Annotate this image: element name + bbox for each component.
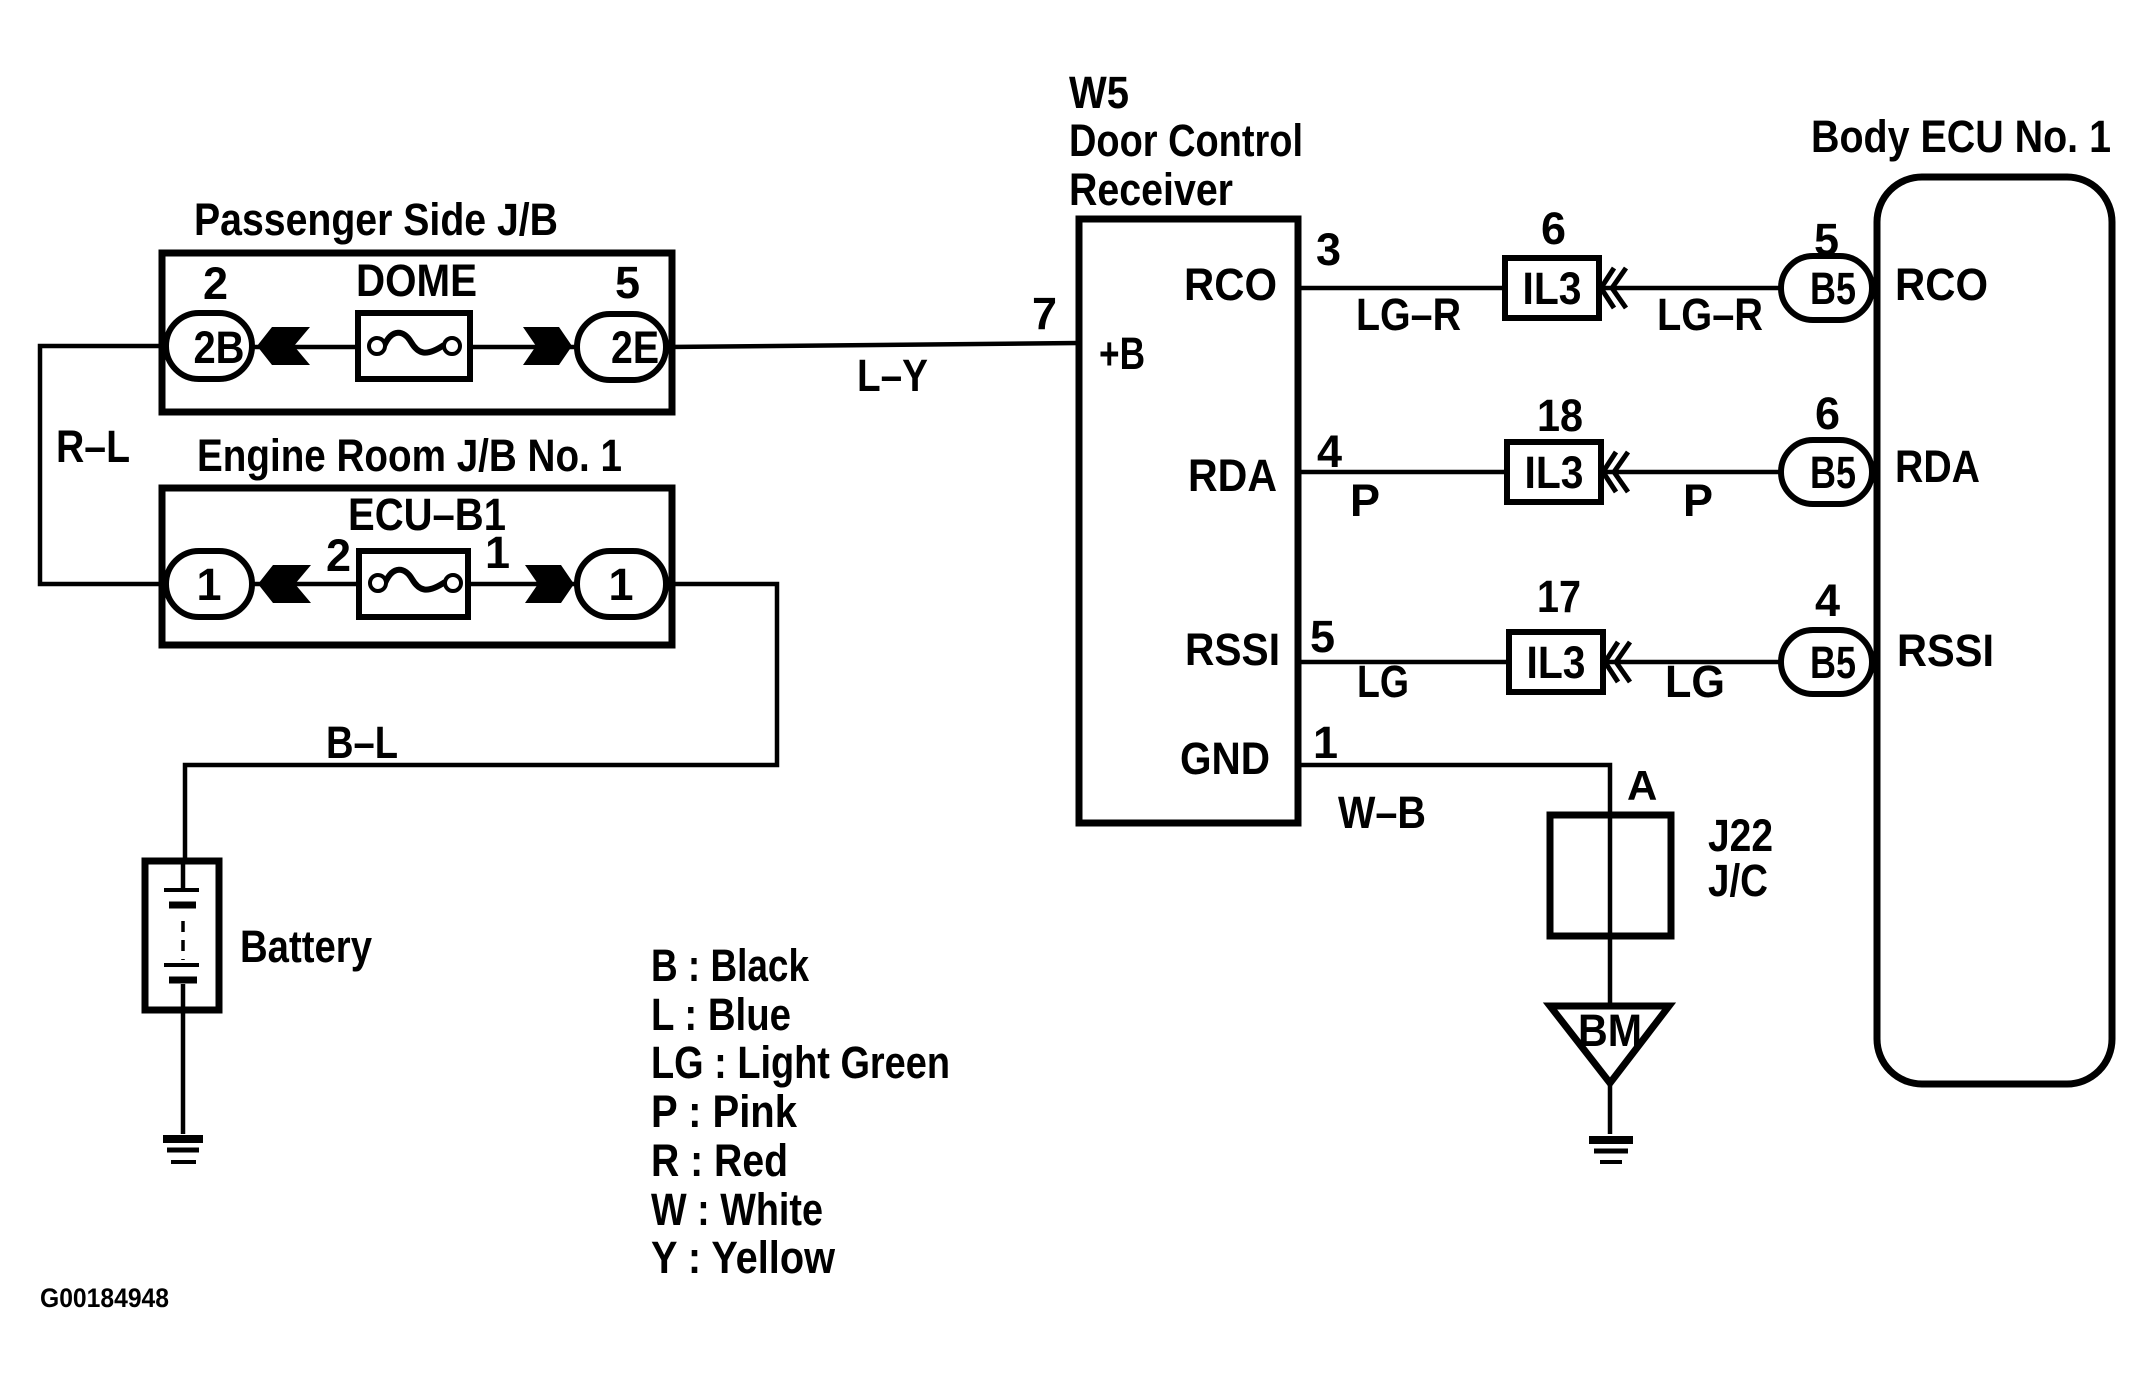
- svg-text:7: 7: [1032, 288, 1057, 339]
- svg-text:IL3: IL3: [1527, 637, 1586, 688]
- svg-text:P : Pink: P : Pink: [651, 1086, 798, 1137]
- svg-text:W–B: W–B: [1338, 787, 1426, 838]
- svg-text:W5: W5: [1069, 67, 1129, 118]
- svg-text:RSSI: RSSI: [1185, 624, 1280, 675]
- svg-text:5: 5: [1814, 214, 1839, 265]
- svg-text:Door Control: Door Control: [1069, 115, 1303, 166]
- svg-text:2: 2: [203, 258, 228, 309]
- svg-text:+B: +B: [1099, 328, 1145, 379]
- svg-text:LG : Light Green: LG : Light Green: [651, 1037, 950, 1088]
- svg-text:R–L: R–L: [56, 421, 130, 472]
- svg-text:LG–R: LG–R: [1657, 289, 1763, 340]
- svg-text:3: 3: [1316, 224, 1341, 275]
- svg-text:P: P: [1350, 475, 1380, 526]
- svg-text:B–L: B–L: [326, 717, 398, 768]
- svg-text:GND: GND: [1180, 733, 1270, 784]
- svg-text:IL3: IL3: [1523, 263, 1582, 314]
- svg-text:4: 4: [1317, 426, 1342, 477]
- svg-text:RSSI: RSSI: [1897, 625, 1994, 676]
- svg-text:LG–R: LG–R: [1356, 289, 1461, 340]
- svg-text:L : Blue: L : Blue: [651, 989, 791, 1040]
- svg-text:LG: LG: [1665, 656, 1725, 707]
- svg-text:G00184948: G00184948: [40, 1283, 169, 1313]
- svg-text:1: 1: [196, 559, 221, 610]
- svg-text:17: 17: [1537, 571, 1581, 622]
- svg-text:2: 2: [326, 530, 351, 581]
- svg-text:Engine Room J/B No. 1: Engine Room J/B No. 1: [197, 430, 622, 481]
- svg-text:IL3: IL3: [1525, 447, 1584, 498]
- svg-text:Body ECU No. 1: Body ECU No. 1: [1811, 111, 2111, 162]
- svg-text:B5: B5: [1810, 637, 1856, 688]
- svg-text:RDA: RDA: [1895, 441, 1980, 492]
- svg-text:5: 5: [615, 257, 640, 308]
- svg-text:ECU–B1: ECU–B1: [348, 489, 506, 540]
- svg-text:B : Black: B : Black: [651, 940, 810, 991]
- svg-text:1: 1: [608, 559, 633, 610]
- svg-text:A: A: [1627, 762, 1657, 809]
- svg-text:6: 6: [1541, 203, 1566, 254]
- svg-text:18: 18: [1537, 390, 1583, 441]
- svg-text:1: 1: [485, 527, 510, 578]
- svg-text:DOME: DOME: [356, 255, 477, 306]
- svg-text:RDA: RDA: [1188, 450, 1277, 501]
- svg-text:W : White: W : White: [651, 1184, 823, 1235]
- svg-text:Passenger Side J/B: Passenger Side J/B: [194, 194, 558, 245]
- svg-text:1: 1: [1313, 717, 1338, 768]
- svg-text:4: 4: [1815, 575, 1840, 626]
- svg-text:B5: B5: [1810, 263, 1856, 314]
- svg-text:2E: 2E: [611, 322, 659, 373]
- svg-text:Y : Yellow: Y : Yellow: [651, 1232, 836, 1283]
- svg-text:J/C: J/C: [1708, 855, 1768, 906]
- svg-text:2B: 2B: [194, 322, 245, 373]
- svg-text:L–Y: L–Y: [857, 350, 928, 401]
- svg-text:R : Red: R : Red: [651, 1135, 788, 1186]
- svg-text:Receiver: Receiver: [1069, 164, 1233, 215]
- svg-text:P: P: [1683, 475, 1713, 526]
- svg-text:5: 5: [1310, 611, 1335, 662]
- svg-text:Battery: Battery: [240, 921, 372, 972]
- svg-text:6: 6: [1815, 388, 1840, 439]
- svg-text:LG: LG: [1357, 656, 1409, 707]
- svg-text:RCO: RCO: [1184, 259, 1277, 310]
- svg-text:BM: BM: [1578, 1005, 1642, 1056]
- svg-text:RCO: RCO: [1895, 259, 1988, 310]
- svg-text:J22: J22: [1708, 810, 1773, 861]
- svg-text:B5: B5: [1810, 447, 1856, 498]
